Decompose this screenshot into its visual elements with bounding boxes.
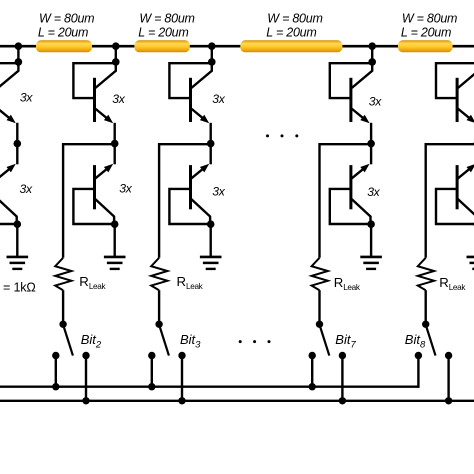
svg-text:L = 20um: L = 20um (138, 26, 188, 40)
label 3x for Q4A (369, 95, 382, 109)
node dot Bit_8 on bus 2 (445, 397, 452, 404)
node dot column 3 collector/base tie (208, 58, 216, 66)
wire mid node column 4 to R_Leak branch (320, 144, 372, 258)
label R_Leak (column 2) (79, 274, 106, 291)
svg-text:W = 80um: W = 80um (39, 11, 94, 25)
svg-text:L = 20um: L = 20um (38, 26, 88, 40)
node dot Bit_3 on bus 2 (178, 397, 185, 404)
wire bus 1 (upper output bus) (0, 386, 418, 388)
node column 4 bottom (Q4B collector/base) (367, 220, 375, 228)
svg-text:RLeak: RLeak (334, 275, 361, 292)
wire switch Bit_2 left terminal to bus 1 (55, 356, 57, 387)
node column 2 mid (between Q2A and Q2B) (111, 140, 119, 148)
node dot Bit_7 on bus 2 (339, 397, 346, 404)
node column 1 bottom (Q1B collector/base) (13, 220, 21, 228)
label 3x for Q2A (112, 92, 125, 106)
node column 2 bottom (Q2B collector/base) (111, 220, 119, 228)
wire R_Leak to switch Bit_8 (425, 290, 427, 322)
transistor Q2A (upper 3x NPN, diode-connected, column 2) (73, 63, 115, 144)
label Bit_8 (405, 332, 426, 351)
resistor R_Leak (column 3) (151, 258, 167, 290)
svg-text:3x: 3x (112, 92, 125, 106)
resistor R1 ladder segment (W=80um L=20um) (36, 40, 92, 52)
wire switch Bit_7 left terminal to bus 1 (311, 356, 313, 387)
switch Bit_2 (SPDT to bus lines) (52, 321, 90, 360)
label Bit_2 (81, 332, 102, 351)
ground (column 5) (467, 224, 474, 269)
transistor Q4B (lower 3x NPN, diode-connected, column 4) (330, 144, 371, 225)
svg-text:RLeak: RLeak (439, 275, 466, 292)
node dot Bit_7 on bus 1 (309, 383, 316, 390)
svg-text:3x: 3x (369, 95, 382, 109)
value label for R3: W = 80um / L = 20um (266, 11, 322, 39)
wire mid node column 5 to R_Leak branch (426, 144, 474, 258)
wire mid node column 3 to R_Leak branch (159, 144, 211, 258)
resistor R3 ladder segment (W=80um L=20um) (240, 40, 342, 52)
wire switch Bit_8 left terminal to bus 1 end (417, 356, 419, 388)
node dot column 1 collector/base tie (15, 58, 23, 66)
svg-text:W = 80um: W = 80um (139, 11, 194, 25)
ground (column 3) (200, 224, 222, 269)
svg-text:3x: 3x (367, 185, 380, 199)
node N4 (rail junction, column 4) (368, 42, 376, 50)
svg-text:Bit7: Bit7 (335, 332, 356, 351)
svg-text:W = 80um: W = 80um (402, 11, 457, 25)
svg-text:3x: 3x (20, 182, 33, 196)
svg-text:L = 20um: L = 20um (266, 26, 316, 40)
node N2 (rail junction, column 2) (112, 42, 120, 50)
node column 3 bottom (Q3B collector/base) (207, 220, 215, 228)
node column 4 mid (between Q4A and Q4B) (367, 140, 375, 148)
wire top rail (ladder node rail) (0, 45, 474, 48)
wire rail to Q1A collector node (17, 46, 19, 62)
transistor Q4A (upper 3x NPN, diode-connected, column 4) (330, 63, 372, 144)
wire switch Bit_2 right terminal to bus 2 (85, 356, 87, 401)
svg-text:RLeak: RLeak (79, 274, 106, 291)
svg-text:W = 80um: W = 80um (267, 11, 322, 25)
wire rail to Q3A collector node (211, 46, 213, 62)
resistor R4 ladder segment (W=80um L=20um) (398, 40, 453, 52)
wire switch Bit_8 right terminal to bus 2 (447, 356, 449, 401)
node N3 (rail junction, column 3) (208, 42, 216, 50)
ground (column 2) (104, 224, 126, 269)
node dot column 2 collector/base tie (112, 58, 120, 66)
label 3x for Q3B (212, 184, 225, 198)
wire R_Leak to switch Bit_3 (158, 290, 160, 322)
resistor R2 ladder segment (W=80um L=20um) (134, 40, 189, 52)
switch Bit_7 (SPDT to bus lines) (309, 321, 347, 360)
transistor Q5B (lower 3x NPN, diode-connected, column 5) (436, 144, 474, 225)
label 3x for Q3A (212, 92, 225, 106)
label 3x for Q2B (119, 182, 132, 196)
ground (column 4) (360, 224, 382, 269)
wire switch Bit_3 right terminal to bus 2 (181, 356, 183, 401)
label Bit_7 (335, 332, 356, 351)
svg-text:3x: 3x (212, 92, 225, 106)
label 3x for Q4B (367, 185, 380, 199)
wire R_Leak to switch Bit_7 (318, 290, 320, 322)
transistor Q3A (upper 3x NPN, diode-connected, column 3) (169, 63, 211, 144)
node dot Bit_2 on bus 2 (82, 397, 89, 404)
transistor Q1A (upper 3x NPN, diode-connected, column 1) (0, 63, 18, 144)
switch Bit_3 (SPDT to bus lines) (148, 321, 186, 360)
node column 3 mid (between Q3A and Q3B) (207, 140, 215, 148)
value label for R1: W = 80um / L = 20um (38, 11, 94, 39)
value label for R2: W = 80um / L = 20um (138, 11, 194, 39)
switch Bit_8 (SPDT to bus lines) (415, 321, 453, 360)
svg-text:3x: 3x (119, 182, 132, 196)
resistor R_Leak (column 4) (312, 258, 328, 290)
ground (column 1) (7, 224, 29, 269)
transistor Q1B (lower 3x NPN, diode-connected, column 1) (0, 144, 17, 225)
label = 1kOhm (leftmost R_Leak value) (3, 281, 36, 295)
svg-text:= 1kΩ: = 1kΩ (3, 281, 36, 295)
transistor Q2B (lower 3x NPN, diode-connected, column 2) (73, 144, 114, 225)
svg-text:3x: 3x (20, 90, 33, 104)
node column 1 mid (between Q1A and Q1B) (13, 140, 21, 148)
svg-text:RLeak: RLeak (177, 274, 204, 291)
label R_Leak (column 4) (334, 275, 361, 292)
transistor Q5A (upper 3x NPN, diode-connected, column 5) (436, 63, 474, 144)
wire bus 2 (lower output bus) (0, 400, 474, 402)
label 3x for Q1A (20, 90, 33, 104)
node dot Bit_3 on bus 1 (148, 383, 155, 390)
label R_Leak (column 5) (439, 275, 466, 292)
wire switch Bit_7 right terminal to bus 2 (341, 356, 343, 401)
label 3x for Q1B (20, 182, 33, 196)
svg-text:Bit8: Bit8 (405, 332, 426, 351)
svg-text:3x: 3x (212, 184, 225, 198)
wire rail to Q4A collector node (371, 46, 373, 62)
node dot Bit_2 on bus 1 (52, 383, 59, 390)
node dot column 4 collector/base tie (368, 58, 376, 66)
resistor R_Leak (column 2) (55, 258, 71, 290)
ellipsis dots (ladder continues, upper) (266, 134, 298, 137)
wire rail to Q2A collector node (115, 46, 117, 62)
label R_Leak (column 3) (177, 274, 204, 291)
ellipsis dots (bits continue, lower) (239, 340, 271, 343)
wire mid node column 2 to R_Leak branch (63, 144, 115, 258)
label Bit_3 (180, 332, 201, 351)
value label for R4: W = 80um / L = 20um (401, 11, 457, 39)
svg-text:Bit3: Bit3 (180, 332, 201, 351)
transistor Q3B (lower 3x NPN, diode-connected, column 3) (169, 144, 210, 225)
svg-text:L = 20um: L = 20um (401, 26, 451, 40)
node N1 (rail junction, column 1) (15, 42, 23, 50)
wire switch Bit_3 left terminal to bus 1 (151, 356, 153, 387)
resistor R_Leak (column 5) (418, 258, 434, 290)
wire R_Leak to switch Bit_2 (62, 290, 64, 322)
svg-text:Bit2: Bit2 (81, 332, 102, 351)
